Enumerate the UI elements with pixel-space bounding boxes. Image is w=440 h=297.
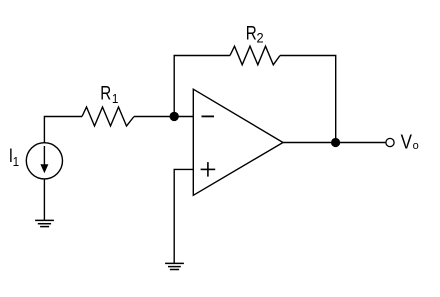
op-amp minus (inverting input marker)	[202, 115, 215, 117]
op-amp plus (non-inverting input marker)	[201, 162, 216, 177]
node A (junction dot, inverting input)	[170, 112, 179, 121]
current source I1	[26, 143, 62, 179]
label R1	[100, 82, 118, 106]
label Vo	[401, 130, 419, 153]
wire: feedback up from node A to R2	[174, 56, 230, 117]
resistor R1	[82, 107, 134, 126]
svg-text:R: R	[100, 82, 111, 104]
wire: R1 to op-amp inverting input	[134, 116, 193, 118]
op-amp U1	[193, 89, 283, 195]
svg-text:V: V	[401, 130, 413, 153]
label I1	[9, 144, 20, 169]
wire: R2 to output node	[280, 56, 336, 143]
svg-text:o: o	[413, 140, 419, 152]
wire: non-inverting input to ground	[174, 169, 193, 263]
ground (below I1)	[35, 220, 54, 226]
svg-text:2: 2	[257, 30, 264, 45]
svg-text:1: 1	[112, 91, 119, 106]
svg-text:1: 1	[13, 154, 20, 169]
output terminal (open circle)	[386, 138, 394, 146]
wire: op-amp output to terminal	[283, 142, 386, 144]
ground (below op-amp)	[165, 263, 184, 269]
label R2	[246, 22, 264, 46]
resistor R2	[230, 46, 280, 65]
wire: current source top to R1	[44, 117, 82, 144]
node B (output junction dot)	[331, 138, 340, 147]
svg-text:R: R	[246, 22, 257, 44]
wire: current source bottom to ground	[43, 179, 45, 221]
